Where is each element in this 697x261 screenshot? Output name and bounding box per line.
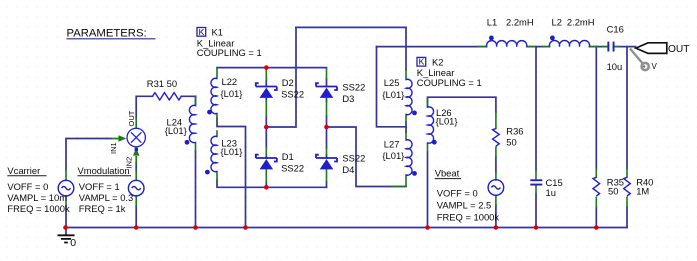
svg-text:L22: L22 bbox=[222, 76, 238, 87]
multiplier IN2 arrow bbox=[133, 148, 139, 164]
K1 coupling symbol bbox=[197, 27, 206, 37]
inductor L25 bbox=[406, 79, 412, 114]
pin L27 top bbox=[405, 132, 407, 141]
wire D2 bottom lead bbox=[265, 99, 267, 102]
wire D1 bottom to bottom wire bbox=[265, 182, 267, 187]
pin C16 right bbox=[614, 46, 619, 48]
diode D2 bbox=[256, 83, 277, 98]
pin R35 bottom bbox=[595, 197, 597, 207]
diode D1 bbox=[256, 155, 277, 170]
wire output rail segment C bbox=[590, 46, 609, 48]
pin Vbeat top bbox=[495, 172, 497, 180]
wire D2 bottom to node bbox=[265, 116, 267, 127]
label Vmodulation bbox=[78, 165, 134, 214]
svg-text:{L01}: {L01} bbox=[382, 89, 404, 100]
wire L26 bottom to rail bbox=[427, 152, 429, 228]
pin L24 top bbox=[195, 97, 197, 106]
pin L2 left bbox=[542, 46, 550, 48]
svg-text:OUT: OUT bbox=[668, 44, 690, 55]
pin C16 left bbox=[603, 46, 608, 48]
wire multiplier IN2 to Vmodulation bbox=[135, 163, 137, 170]
svg-text:Vbeat: Vbeat bbox=[435, 168, 460, 179]
svg-text:D2: D2 bbox=[282, 77, 294, 88]
wire L24 top bbox=[195, 96, 197, 105]
svg-text:D4: D4 bbox=[342, 164, 354, 175]
inductor L24 bbox=[189, 105, 195, 142]
wire D2 top lead bbox=[265, 79, 267, 87]
wire node to D4 top bbox=[326, 127, 328, 148]
inductor L2 bbox=[549, 40, 589, 46]
inductor L23 bbox=[211, 136, 217, 171]
wire D4 bottom to bottom wire bbox=[326, 182, 328, 187]
pin C15 top bbox=[535, 170, 537, 179]
svg-text:OUT: OUT bbox=[127, 110, 136, 126]
pin L1 right bbox=[527, 46, 535, 48]
source Vbeat bbox=[488, 180, 504, 196]
wire R35 bottom to rail bbox=[595, 207, 597, 228]
ground bbox=[58, 228, 77, 249]
pin R40 bottom bbox=[626, 197, 628, 207]
svg-text:VAMPL = 0.3: VAMPL = 0.3 bbox=[79, 192, 133, 203]
wire L26 top to R36 top bbox=[428, 97, 496, 112]
pin R40 top bbox=[626, 169, 628, 178]
wire D4 top lead bbox=[326, 155, 328, 158]
svg-text:K: K bbox=[419, 57, 425, 67]
wire C15 bottom to rail bbox=[535, 194, 537, 228]
svg-text:K: K bbox=[199, 27, 205, 37]
wire D1 top lead bbox=[265, 155, 267, 158]
pin D4 bottom bbox=[326, 169, 328, 183]
voltage probe marker bbox=[630, 49, 658, 72]
pin Vcarrier bottom bbox=[65, 196, 67, 206]
label Vcarrier bbox=[7, 165, 70, 214]
capacitor C16 bbox=[607, 42, 614, 52]
multiplier pin junction square bbox=[135, 148, 138, 151]
wire R40 bottom to rail bbox=[626, 207, 628, 228]
svg-text:L2: L2 bbox=[552, 16, 562, 27]
svg-text:V: V bbox=[652, 62, 658, 71]
wire top-rail drop to D-node bbox=[266, 27, 296, 127]
pin D3 bottom bbox=[326, 101, 328, 116]
svg-text:2.2mH: 2.2mH bbox=[567, 16, 595, 27]
svg-text:2.2mH: 2.2mH bbox=[506, 16, 534, 27]
wire D3 top lead bbox=[326, 79, 328, 87]
pin L24 bottom bbox=[195, 143, 197, 152]
wire Vcarrier to multiplier IN1 bbox=[66, 139, 111, 171]
wire C16 to OUT connector bbox=[614, 46, 636, 48]
pin Vcarrier top bbox=[65, 171, 67, 181]
wire R40 top column bbox=[626, 47, 628, 169]
label PARAMETERS bbox=[67, 27, 156, 39]
pin L1 left bbox=[479, 46, 487, 48]
pin D1 top bbox=[265, 148, 267, 155]
pin R35 top bbox=[595, 169, 597, 178]
svg-text:{L01}: {L01} bbox=[221, 88, 243, 99]
svg-text:50: 50 bbox=[608, 186, 618, 197]
svg-text:C16: C16 bbox=[607, 24, 624, 35]
pin D4 top bbox=[326, 148, 328, 155]
resistor R40 bbox=[624, 177, 631, 196]
polarity dots bbox=[185, 36, 555, 176]
svg-text:{L01}: {L01} bbox=[382, 150, 404, 161]
pin L23 bottom bbox=[216, 172, 218, 181]
wire L25 bottom to tap bbox=[405, 122, 407, 127]
wire Vmodulation bottom to rail bbox=[135, 206, 137, 228]
wire top rail drop to L25 bbox=[405, 27, 407, 70]
svg-text:SS22: SS22 bbox=[281, 163, 304, 174]
svg-text:K2: K2 bbox=[432, 56, 443, 67]
diode D3 bbox=[316, 83, 337, 98]
svg-text:Vcarrier: Vcarrier bbox=[7, 165, 40, 176]
wire L22-D2-D3 rail bbox=[217, 67, 327, 69]
resistor R31 bbox=[153, 93, 182, 100]
svg-text:COUPLING = 1: COUPLING = 1 bbox=[197, 47, 262, 58]
svg-text:{L01}: {L01} bbox=[221, 146, 243, 157]
inductor L1 bbox=[487, 41, 527, 47]
capacitor C15 bbox=[530, 179, 542, 185]
diode D4 bbox=[316, 155, 337, 170]
wire D3/D4 node to L27 bottom bbox=[327, 127, 407, 187]
svg-text:VOFF = 0: VOFF = 0 bbox=[437, 188, 478, 199]
svg-text:SS22: SS22 bbox=[342, 153, 365, 164]
svg-text:SS22: SS22 bbox=[281, 88, 304, 99]
svg-text:L25: L25 bbox=[384, 77, 400, 88]
svg-text:{L01}: {L01} bbox=[165, 125, 187, 136]
inductor L27 bbox=[406, 140, 412, 175]
wire output rail segment B bbox=[527, 46, 550, 48]
pin L23 top bbox=[216, 131, 218, 137]
K2 coupling symbol bbox=[417, 57, 426, 67]
pin L22 top bbox=[216, 69, 218, 79]
multiplier U1 bbox=[127, 128, 145, 146]
svg-text:R36: R36 bbox=[506, 125, 523, 136]
pin L26 top bbox=[427, 98, 429, 107]
wire node to D1 top bbox=[265, 127, 267, 148]
pin L27 bottom bbox=[405, 175, 407, 186]
wire C15 top column bbox=[535, 47, 537, 170]
pin C15 bottom bbox=[535, 185, 537, 194]
wire top rail bbox=[296, 26, 406, 28]
svg-text:IN1: IN1 bbox=[109, 142, 118, 154]
wire Vcarrier bottom to rail bbox=[65, 206, 67, 228]
label Vbeat bbox=[435, 168, 500, 223]
svg-text:FREQ = 1k: FREQ = 1k bbox=[79, 203, 126, 214]
pin L2 right bbox=[590, 46, 598, 48]
wire bottom ground rail bbox=[66, 227, 628, 229]
svg-text:L1: L1 bbox=[487, 16, 497, 27]
svg-text:VOFF = 1: VOFF = 1 bbox=[79, 181, 120, 192]
pin Vmodulation top bbox=[135, 171, 137, 181]
svg-text:PARAMETERS:: PARAMETERS: bbox=[67, 27, 147, 39]
svg-text:K1: K1 bbox=[212, 27, 223, 38]
pin multiplier OUT bbox=[135, 118, 137, 128]
svg-text:D1: D1 bbox=[282, 151, 294, 162]
svg-text:10u: 10u bbox=[607, 61, 623, 72]
pin L26 bottom bbox=[427, 143, 429, 152]
pin D2 bottom bbox=[265, 101, 267, 116]
multiplier IN1 arrow bbox=[111, 135, 126, 141]
wire D3 bottom to node bbox=[326, 116, 328, 127]
wire L22/L23 center tap to ground rail bbox=[217, 118, 246, 228]
svg-text:50: 50 bbox=[506, 136, 516, 147]
svg-text:VAMPL = 10m: VAMPL = 10m bbox=[7, 192, 67, 203]
pin Vmodulation bottom bbox=[135, 196, 137, 206]
svg-text:R31 50: R31 50 bbox=[147, 78, 177, 89]
OUT off-page connector bbox=[636, 43, 667, 54]
resistor R36 bbox=[493, 129, 500, 147]
wire Vbeat bottom to rail bbox=[495, 205, 497, 228]
pin R36 bottom bbox=[495, 147, 497, 157]
pin L27 bottom horizontal bbox=[392, 186, 405, 188]
wire tap to L27 top bbox=[405, 127, 407, 132]
wire multiplier out to R31 bbox=[136, 96, 152, 118]
pin D3 top bbox=[326, 69, 328, 80]
svg-text:SS22: SS22 bbox=[342, 81, 365, 92]
inductor L22 bbox=[211, 78, 217, 113]
pin L25 bottom bbox=[405, 115, 407, 123]
pin D1 bottom bbox=[265, 169, 267, 183]
svg-text:1u: 1u bbox=[546, 187, 556, 198]
pin Vbeat bottom bbox=[495, 195, 497, 205]
resistor R35 bbox=[593, 177, 600, 196]
svg-text:FREQ = 1000k: FREQ = 1000k bbox=[7, 203, 70, 214]
pin L22 bottom bbox=[216, 114, 218, 120]
svg-text:COUPLING = 1: COUPLING = 1 bbox=[417, 77, 482, 88]
svg-text:L27: L27 bbox=[384, 139, 400, 150]
pin D2 top bbox=[265, 69, 267, 80]
svg-text:0: 0 bbox=[70, 237, 76, 249]
svg-text:D3: D3 bbox=[342, 93, 354, 104]
svg-text:1M: 1M bbox=[636, 186, 649, 197]
wire center-tap of L25/L27 to output rail bbox=[377, 47, 407, 127]
svg-text:VAMPL = 2.5: VAMPL = 2.5 bbox=[437, 200, 491, 211]
svg-text:Vmodulation: Vmodulation bbox=[78, 165, 130, 176]
wire D3 bottom lead bbox=[326, 99, 328, 102]
svg-text:{L01}: {L01} bbox=[436, 115, 458, 126]
wire R31 to L24 bbox=[181, 95, 195, 97]
pin R36 top bbox=[495, 112, 497, 129]
wire R35 top column bbox=[595, 47, 597, 169]
wire R36 bottom to Vbeat top bbox=[495, 157, 497, 172]
source Vmodulation bbox=[128, 180, 144, 196]
pin L25 top bbox=[405, 70, 407, 80]
source Vcarrier bbox=[58, 180, 74, 196]
svg-text:FREQ = 1000k: FREQ = 1000k bbox=[437, 212, 500, 223]
wire output rail segment A bbox=[377, 46, 487, 48]
wire L24 bottom to rail bbox=[195, 151, 197, 228]
svg-text:IN2: IN2 bbox=[125, 157, 134, 169]
wire L23 bottom to D1/D4 bottoms bbox=[217, 180, 327, 187]
inductor L26 bbox=[428, 107, 434, 143]
svg-text:VOFF = 0: VOFF = 0 bbox=[7, 181, 48, 192]
